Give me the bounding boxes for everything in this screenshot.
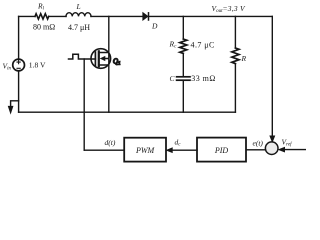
inductor L (4.7 uH) (66, 13, 91, 17)
wire bottom rail (19, 111, 236, 113)
block PWM (124, 138, 166, 162)
wire gate pulse annotation + gate lead (69, 54, 96, 59)
svg-text:Vin: Vin (3, 62, 12, 72)
svg-text:Q1: Q1 (113, 57, 120, 65)
svg-text:PID: PID (214, 146, 229, 155)
wire d(t) vertical riser to gate (83, 59, 85, 150)
svg-text:e(t): e(t) (253, 139, 264, 148)
svg-text:d(t): d(t) (105, 138, 116, 147)
svg-text:4.7 μH: 4.7 μH (68, 23, 90, 32)
wire Rc to C (182, 53, 184, 76)
wire PWM output d(t) (84, 149, 124, 151)
wire between Rl and L (49, 15, 66, 17)
svg-text:R: R (241, 54, 247, 63)
svg-text:4.7 μC: 4.7 μC (191, 41, 215, 50)
resistor R branch: wire top to R (234, 16, 236, 48)
svg-text:Vref: Vref (282, 138, 293, 148)
svg-text:80 mΩ: 80 mΩ (33, 23, 55, 32)
wire between L and diode (91, 15, 143, 17)
resistor Rl (series, 80 mOhm) (35, 14, 49, 19)
wire R to bottom rail (234, 64, 236, 113)
svg-text:1.8 V: 1.8 V (29, 61, 46, 70)
transistor Q1 (MOSFET) (91, 49, 111, 69)
wire C to bottom rail (182, 80, 184, 112)
resistor R (232, 48, 239, 64)
svg-text:Rl: Rl (37, 2, 45, 12)
arrowhead into summer (270, 136, 275, 142)
arrowhead into PWM (167, 148, 173, 153)
svg-text:C: C (170, 74, 176, 83)
summing junction (265, 142, 278, 155)
source Vin (1.8 V) circle (13, 59, 25, 71)
svg-text:dc: dc (175, 138, 182, 148)
ground (8, 101, 18, 114)
wire summer to PID (246, 149, 266, 151)
Vin polarity marks (17, 61, 20, 69)
svg-text:L: L (76, 2, 81, 11)
arrowhead Vref into summer (279, 147, 285, 152)
wire diode to top-right corner (149, 15, 273, 17)
wire left vertical (Vin to top wire) (18, 16, 20, 59)
wire top-left segment (19, 15, 35, 17)
block PID (197, 138, 246, 162)
svg-text:Vout=3,3 V: Vout=3,3 V (212, 4, 247, 14)
wire Q1 drain/source vertical (108, 16, 110, 112)
resistor Rc (180, 39, 187, 53)
wire PID to PWM (171, 149, 197, 151)
node RC branch: wire top to Rc (182, 16, 184, 39)
svg-text:PWM: PWM (135, 146, 156, 155)
svg-text:Rc: Rc (169, 40, 178, 50)
wire Vref input (284, 149, 306, 151)
capacitor C (177, 77, 190, 80)
svg-text:D: D (151, 22, 158, 31)
wire Vin bottom to ground node (18, 71, 20, 112)
svg-text:33 mΩ: 33 mΩ (191, 74, 215, 83)
wire feedback vertical (Vout to summer) (271, 16, 273, 136)
diode D (143, 13, 149, 20)
